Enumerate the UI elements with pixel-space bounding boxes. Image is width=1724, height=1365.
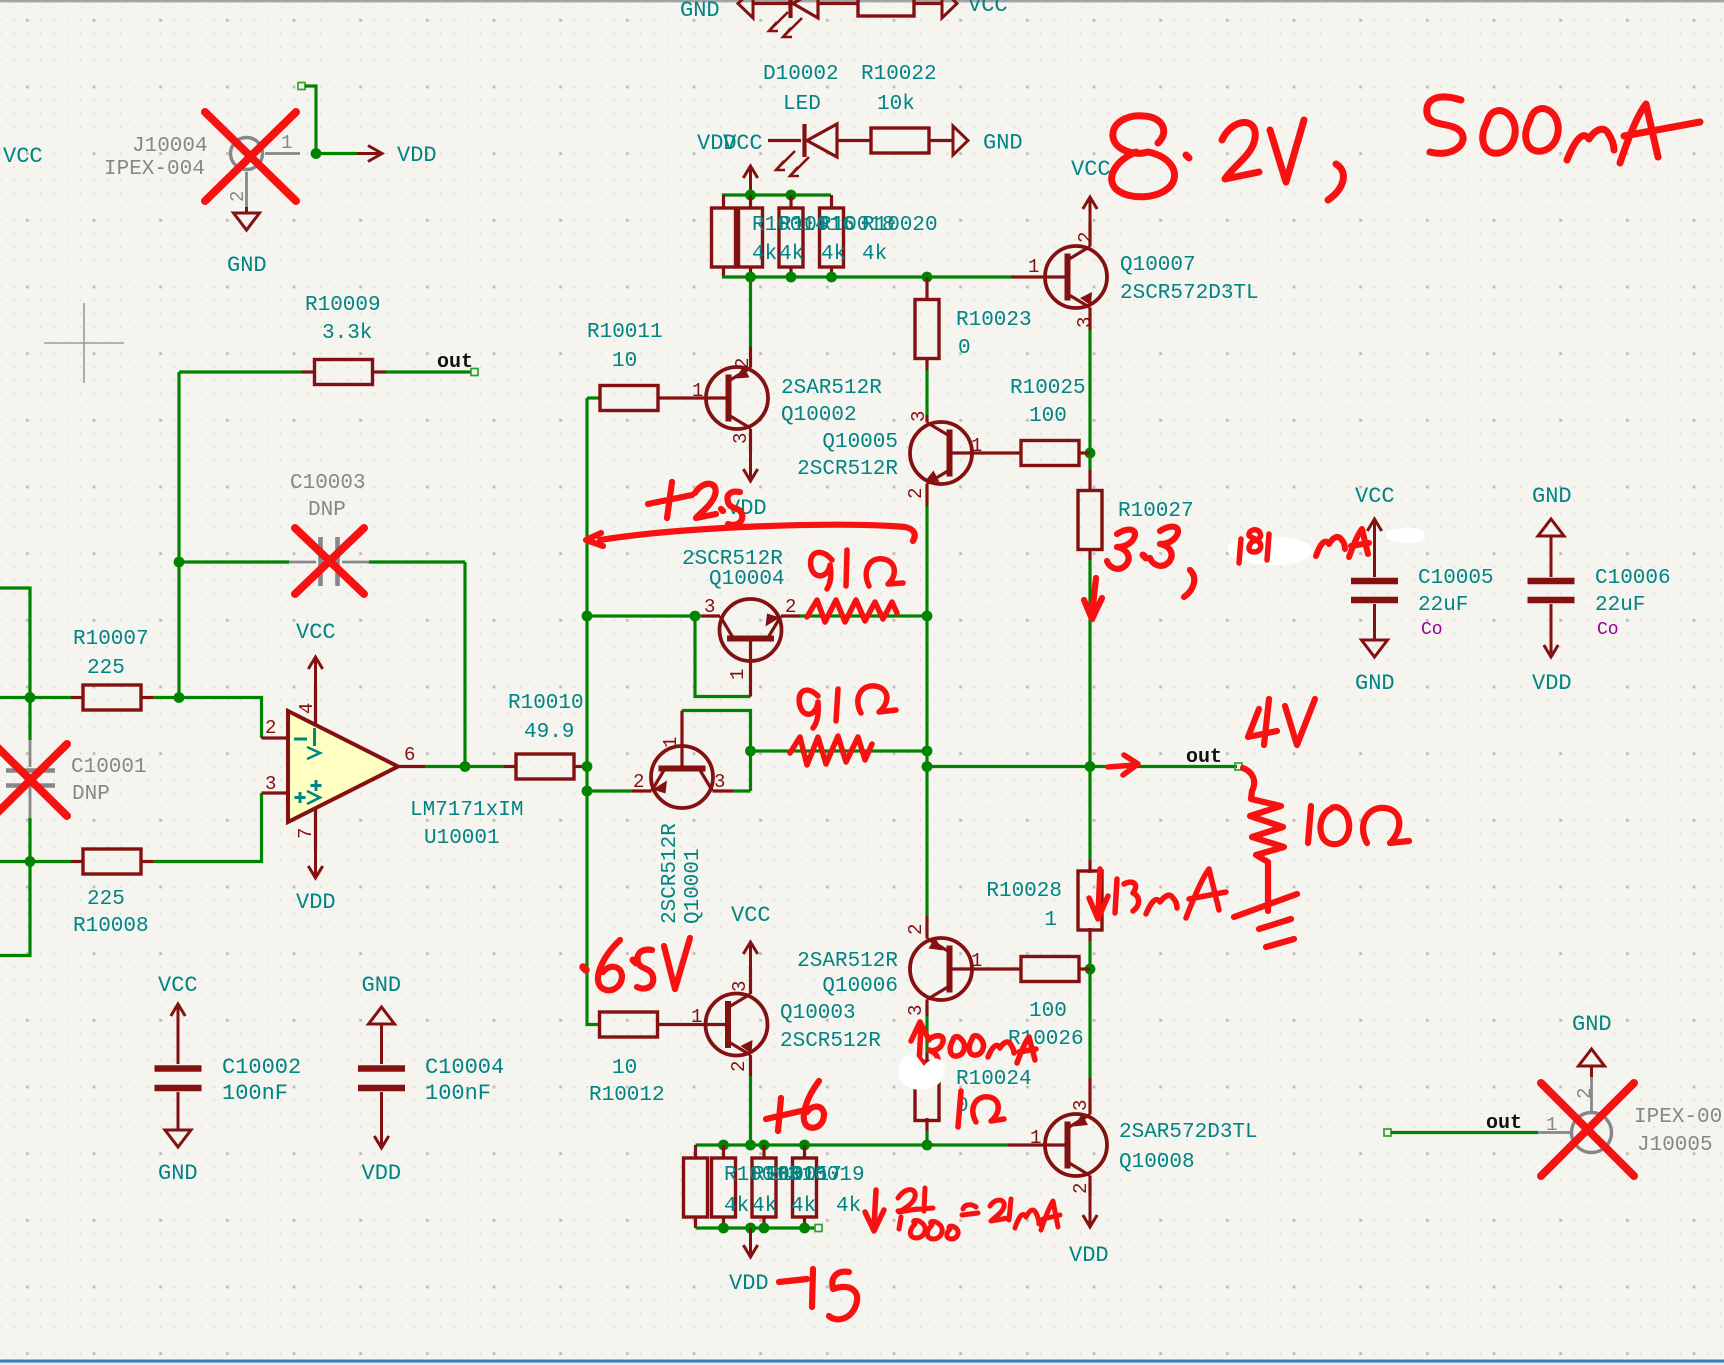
svg-text:VDD: VDD [397,143,437,168]
svg-text:10: 10 [612,1057,637,1080]
power GND (up) [380,1024,383,1034]
wire [800,614,927,617]
annotation down arrow 181mA [1084,578,1102,619]
wire to op-amp pin 3 [153,793,262,862]
wire R10008 row [0,860,71,863]
resistor R10021 (clipped) [858,0,914,16]
svg-text:22uF: 22uF [1418,594,1468,617]
connector J10004 symbol [231,138,263,170]
svg-text:C10002: C10002 [222,1055,301,1080]
pin 2 of Q10002 [749,347,752,368]
power VCC arrow [1089,197,1092,221]
svg-text:2: 2 [905,924,927,935]
svg-text:10: 10 [612,350,637,373]
svg-text:Q10001: Q10001 [682,848,705,924]
pin 1 wire of Q10006 to R10026 [950,967,1023,970]
resistor R10017 [752,1158,776,1217]
red X over C10003 [295,528,364,594]
wire [753,2,790,5]
svg-text:3: 3 [704,596,715,618]
pin 3 of Q10002 [749,429,752,453]
resistor R10013 [684,1158,708,1217]
pin 7 of U10001 and VDD [314,808,317,851]
transistor Q10008 [1045,1114,1107,1176]
resistor R10019 [793,1158,817,1217]
junction [174,557,185,568]
window bottom scrollbar [0,1360,1724,1363]
svg-text:Q10006: Q10006 [822,975,898,998]
junction [174,692,185,703]
svg-text:1: 1 [281,132,292,154]
resistor R10012 [600,1012,658,1037]
transistor Q10006 [910,938,972,1000]
svg-text:GND: GND [1355,671,1395,696]
pin 3 of Q10006 [925,1000,928,1017]
junction [582,786,593,797]
junction [922,272,933,283]
svg-text:R10022: R10022 [861,63,937,86]
junction [826,272,837,283]
junction [922,746,933,757]
svg-text:Q10002: Q10002 [781,404,857,427]
svg-text:2: 2 [905,488,927,499]
svg-text:2: 2 [1070,1183,1092,1194]
capacitor C10006 [1528,578,1575,585]
svg-text:C10005: C10005 [1418,567,1494,590]
svg-text:VDD: VDD [1532,671,1572,696]
resistor R10010 [504,765,516,768]
hierarchical arrow GND [953,126,968,155]
resistor R10025 [1021,441,1079,466]
svg-text:2: 2 [1574,1088,1596,1099]
svg-text:3: 3 [265,773,276,795]
junction [786,272,797,283]
svg-text:R10024: R10024 [956,1068,1032,1091]
power VDD below Q10002 [749,453,752,481]
transistor Q10005 [910,422,972,484]
pin 2 of Q10003 [749,1055,752,1076]
resistor R10028 [1088,860,1091,873]
svg-text:VDD: VDD [729,1271,769,1296]
svg-text:GND: GND [983,131,1023,156]
svg-text:GND: GND [1532,484,1572,509]
pin 3 of Q10004 [702,614,720,617]
junction [25,856,36,867]
resistor R10026 [1021,957,1079,982]
svg-text:4: 4 [296,703,318,714]
svg-text:2: 2 [732,358,754,369]
svg-text:1: 1 [692,380,703,402]
svg-text:1: 1 [1028,256,1039,278]
pin 3 of Q10003 and VCC [749,967,752,994]
resistor bank leads [694,1145,697,1159]
svg-text:2SCR512R: 2SCR512R [797,458,898,481]
pin 2 of Q10004 [781,614,800,617]
power arrow VDD [357,152,379,155]
wire [749,277,752,347]
resistor R10024 [925,1053,928,1064]
wire [929,139,953,142]
pin 3 of Q10007 [1088,308,1091,331]
annotation 8.2V 500mA [1112,116,1175,197]
svg-text:R10008: R10008 [73,915,149,938]
wire [925,1016,928,1053]
annotation 6.5V [583,967,586,970]
pin 2 of Q10008 and VDD [1088,1176,1091,1197]
annotation hand resistor 10ohm to ground [1243,768,1284,911]
resistor R10027 [1088,470,1091,492]
svg-text:2: 2 [1075,232,1097,243]
svg-text:IPEX-004: IPEX-004 [104,158,205,181]
junction [745,190,756,201]
pin 6 of U10001 [398,765,425,768]
svg-text:LM7171xIM: LM7171xIM [410,799,523,822]
svg-text:100nF: 100nF [425,1081,491,1106]
svg-text:R10019: R10019 [789,1164,865,1187]
junction [718,1223,729,1234]
wire [587,789,632,792]
capacitor C10005 [1351,578,1398,585]
svg-text:225: 225 [87,657,125,680]
svg-text:DNP: DNP [308,499,346,522]
wire [768,139,801,142]
svg-text:R10011: R10011 [587,321,663,344]
pin 3 of Q10001 [713,789,734,792]
svg-text:U10001: U10001 [424,827,500,850]
svg-text:GND: GND [1572,1012,1612,1037]
power VDD C10006 [1550,604,1553,657]
resistor R10007 [71,696,83,699]
svg-text:VCC: VCC [723,131,763,156]
svg-text:3: 3 [730,433,752,444]
svg-text:D10002: D10002 [763,63,839,86]
junction [25,692,36,703]
annotation 300mA with arrow [911,1022,929,1064]
red X over C10001 [0,744,67,816]
wire to op-amp pin 2 [153,698,262,739]
svg-text:4k: 4k [724,1195,749,1218]
svg-text:1: 1 [1044,909,1057,932]
hierarchical arrow right (top row) [942,0,957,18]
svg-text:R10023: R10023 [956,309,1032,332]
svg-text:100: 100 [1029,1000,1067,1023]
wire [695,614,702,617]
LED D10001 (clipped) [788,0,792,18]
annotation 91ohm upper [811,552,832,589]
power VDD below bank [749,1228,752,1257]
white-out dash over m [1386,528,1425,543]
wire [837,139,871,142]
svg-text:out: out [437,351,473,374]
junction [922,1140,933,1151]
resistor R10018 [779,208,803,267]
svg-text:J10004: J10004 [132,135,208,158]
capacitor C10001 symbol (DNP grey) [29,740,32,767]
svg-text:1: 1 [971,950,982,972]
svg-text:Q10004: Q10004 [709,568,785,591]
wire Q10001 base loop [682,711,751,792]
ground symbol GND of J10004 [245,207,248,213]
junction [718,1140,729,1151]
svg-text:4k: 4k [752,1195,777,1218]
svg-text:3: 3 [1074,317,1096,328]
resistor R10011 [587,396,601,399]
svg-text:VCC: VCC [296,620,336,645]
wire Q10004 node [587,616,751,697]
svg-text:VCC: VCC [158,973,198,998]
svg-text:out: out [1186,746,1222,769]
annotation 3.3 181mA [1107,530,1135,569]
annotation mA tail [1316,537,1345,556]
annotation +6 [766,1098,801,1131]
annotation 10ohm text [1308,806,1311,843]
junction [690,611,701,622]
wire [925,1131,928,1145]
svg-text:VCC: VCC [731,903,771,928]
svg-text:Co: Co [1421,620,1443,640]
wire op-amp output [425,765,504,768]
svg-text:1: 1 [1030,1127,1041,1149]
wire [1088,941,1091,1078]
red X over J10005 [1541,1083,1634,1176]
junction [1085,761,1096,772]
pin 3 of Q10008 [1088,1078,1091,1115]
pin 1 of Q10001 [680,711,683,769]
wire [925,370,928,415]
junction [759,1140,770,1151]
svg-text:GND: GND [227,253,267,278]
wire bank bottom rail [696,1226,816,1229]
svg-text:100: 100 [1029,405,1067,428]
svg-text:VCC: VCC [1071,157,1111,182]
junction [759,1223,770,1234]
svg-text:GND: GND [680,0,720,23]
svg-text:4k: 4k [821,243,846,266]
pin 4 of U10001 and VCC [314,684,317,724]
op-amp input markers [294,738,307,741]
annotation +2.5 with underline arrow [648,482,692,518]
power GND (down) [177,1124,180,1130]
svg-text:2: 2 [728,1061,750,1072]
svg-text:225: 225 [87,888,125,911]
hierarchical arrow left (top row) [738,0,753,18]
svg-text:R10012: R10012 [589,1084,665,1107]
svg-text:1: 1 [691,1006,702,1028]
junction [745,272,756,283]
svg-text:0: 0 [958,337,971,360]
svg-text:3: 3 [714,771,725,793]
junction [786,190,797,201]
resistor bank top leads [789,195,792,209]
resistor bank leads [762,1145,765,1159]
pin 2 of Q10006 [925,916,928,939]
svg-text:J10005: J10005 [1637,1134,1713,1157]
wire [914,2,942,5]
svg-text:2: 2 [633,771,644,793]
svg-text:DNP: DNP [72,783,110,806]
resistor bank top leads [830,195,833,209]
svg-text:R10007: R10007 [73,628,149,651]
svg-text:2: 2 [265,717,276,739]
wire bank top rail [722,193,831,196]
svg-text:7: 7 [295,828,317,839]
svg-text:VCC: VCC [3,144,43,169]
junction [1085,964,1096,975]
wire [179,370,301,373]
svg-text:Q10008: Q10008 [1119,1151,1195,1174]
wire [749,1076,752,1145]
svg-text:3.3k: 3.3k [322,322,372,345]
op-amp U10001 body [288,711,398,822]
cursor crosshair [44,342,124,344]
svg-text:1: 1 [971,435,982,457]
svg-text:R10027: R10027 [1118,500,1194,523]
transistor Q10003 [706,994,768,1056]
wire R10007 row [0,696,71,699]
capacitor C10002 [177,1034,180,1064]
pin 2 of Q10001 [632,789,652,792]
resistor R10009 [301,370,315,373]
svg-text:1: 1 [660,737,682,748]
capacitor C10003 symbol (DNP grey) [289,561,316,564]
svg-text:6: 6 [404,744,415,766]
svg-text:2SCR512R: 2SCR512R [659,823,682,924]
wire out to J10005 [1384,1129,1391,1136]
svg-text:Co: Co [1597,620,1619,640]
power VCC [177,1004,180,1034]
svg-text:R10009: R10009 [305,294,381,317]
junction [582,761,593,772]
wire x927 down [925,506,928,916]
wire [316,152,357,155]
junction [311,148,322,159]
pin 1 wire of Q10005 to R10025 [950,451,1023,454]
svg-text:2SAR572D3TL: 2SAR572D3TL [1119,1121,1258,1144]
capacitor C10004 [380,1034,383,1064]
power VDD (down) [380,1124,383,1148]
svg-text:Q10003: Q10003 [780,1002,856,1025]
wire right rail down to out [1088,560,1091,860]
svg-text:out: out [1486,1112,1522,1135]
resistor R10015 [712,1158,736,1217]
svg-text:Q10007: Q10007 [1120,254,1196,277]
junction [582,611,593,622]
resistor R10016 [739,208,763,267]
pin 3 of U10001 [262,791,289,794]
svg-text:LED: LED [783,93,821,116]
pin 1 wire of Q10007 [1011,275,1068,278]
wire [369,560,465,563]
svg-text:C10003: C10003 [290,472,366,495]
annotation -15 [779,1279,807,1282]
svg-text:3: 3 [905,1005,927,1016]
resistor R10014 [712,208,736,267]
svg-text:2: 2 [785,596,796,618]
wire with end square [298,83,305,90]
resistor R10008 [71,860,83,863]
junction [745,1140,756,1151]
junction [1085,448,1096,459]
annotation out arrow [1108,755,1138,775]
resistor bank top leads [722,195,725,209]
svg-text:10k: 10k [877,93,915,116]
pin 1 wire of Q10008 [1008,1143,1068,1146]
svg-text:R10010: R10010 [508,692,584,715]
svg-text:R10020: R10020 [862,214,938,237]
svg-text:C10006: C10006 [1595,567,1671,590]
svg-text:R10028: R10028 [986,880,1062,903]
annotation 181 over white [1239,539,1241,563]
wire stub top-left [0,588,30,740]
svg-text:Q10005: Q10005 [822,431,898,454]
pin 1 wire of Q10002 [657,396,729,399]
svg-text:4k: 4k [836,1195,861,1218]
svg-text:1: 1 [727,669,749,680]
wire [818,2,858,5]
junction [799,1140,810,1151]
svg-text:2SAR512R: 2SAR512R [797,950,898,973]
svg-text:49.9: 49.9 [524,721,574,744]
window top border [0,0,1724,2]
svg-text:GND: GND [158,1161,198,1186]
svg-text:2SCR572D3TL: 2SCR572D3TL [1120,282,1259,305]
svg-text:VDD: VDD [1069,1243,1109,1268]
junction [922,761,933,772]
svg-text:R10026: R10026 [1008,1028,1084,1051]
connector J10005 symbol [1538,1131,1571,1134]
wire bank rail [696,1143,1009,1146]
svg-text:VDD: VDD [362,1161,402,1186]
pin 1 of Q10004 [749,639,752,697]
transistor Q10001 [651,746,713,808]
resistor R10020 [820,208,844,267]
annotation 4V [1248,699,1277,745]
svg-text:C10001: C10001 [71,756,147,779]
power GND (up) [1590,1066,1593,1077]
LED D10002 [802,124,806,157]
svg-text:4k: 4k [862,243,887,266]
transistor Q10007 [1045,246,1107,308]
junction [460,761,471,772]
svg-text:IPEX-00: IPEX-00 [1634,1106,1722,1129]
resistor bank leads [803,1145,806,1159]
wire center rail [587,398,600,1025]
wire mid row [751,749,928,752]
svg-text:4k: 4k [779,243,804,266]
svg-text:1: 1 [1546,1114,1557,1136]
junction [745,1223,756,1234]
pin 2 of Q10005 [925,484,928,507]
white-out patch R10024 [899,1055,945,1090]
red X over J10004 [205,112,296,201]
svg-text:C10004: C10004 [425,1055,504,1080]
transistor Q10002 [706,367,768,429]
transistor Q10004 [720,599,782,661]
wire to out label [386,370,471,373]
pin 2 of U10001 [262,736,289,739]
wire [733,789,751,792]
svg-text:22uF: 22uF [1595,594,1645,617]
pin 2 of Q10007 [1088,221,1091,247]
svg-text:VDD: VDD [296,890,336,915]
svg-text:4k: 4k [752,243,777,266]
pin 1 wire of Q10003 [657,1023,728,1026]
power VCC above bank [749,166,752,195]
pin 3 of Q10005 [925,415,928,423]
svg-text:2: 2 [227,191,249,202]
power VCC arrow [1373,519,1376,577]
svg-text:2SCR512R: 2SCR512R [780,1030,881,1053]
